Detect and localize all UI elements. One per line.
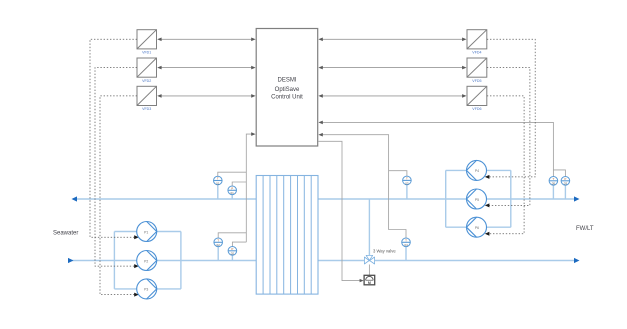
wire: top-left seawater overboard pipe [73,198,256,200]
svg-text:P: P [231,186,233,190]
svg-text:P: P [231,247,233,251]
wire: seawater sensor trunk into CU left [218,132,256,246]
sensor TT2 (SW inlet, left) [214,238,223,261]
wire: FW pipe HX to pump manifold [318,198,446,200]
svg-text:P4: P4 [475,169,479,173]
svg-text:P1: P1 [144,230,148,234]
svg-text:DESMI: DESMI [277,78,296,84]
svg-text:T: T [552,177,554,181]
VFD U2 (left top) [137,30,157,55]
VFD U4 (left bottom) [137,86,157,111]
svg-text:05: 05 [552,182,556,186]
wire: dashed drive cable left VFD2 to pump P2 [95,68,139,269]
heat exchanger HX1 (plate type) [256,176,318,295]
wire: dashed drive cable left VFD3 to pump P3 [100,96,139,297]
wire: seawater pump discharge manifold rail [156,232,181,289]
wire: control bus CU to left VFD3 (double arrow) [157,94,255,98]
svg-text:FW/LT: FW/LT [576,226,594,232]
wire: dashed drive cable right VFD4 to pump P4 [485,39,535,179]
arrow: seawater overboard (points left) [72,196,78,201]
svg-text:P2: P2 [144,259,148,263]
sensor TT5 (FW outlet, left) [549,177,558,200]
svg-text:VFD2: VFD2 [142,79,151,83]
VFD U6 (right middle) [467,58,487,83]
svg-text:P6: P6 [475,226,479,230]
wire: control bus CU to left VFD1 (double arrow) [157,38,255,42]
sensor TT4 (FW return) [402,238,411,261]
wire: FW pump manifold right rail [486,170,510,227]
svg-text:VFD3: VFD3 [142,107,151,111]
wire: CU output to 3-way valve actuator [318,141,364,282]
svg-text:P5: P5 [475,198,479,202]
svg-text:03: 03 [564,182,568,186]
arrow: FW supply outlet (points right) [574,196,580,201]
pump P3 (seawater bottom) [137,279,157,299]
wire: FW return line along bottom [318,260,577,262]
svg-text:01: 01 [231,191,235,195]
sensor TT3 (FW from HX) [403,176,412,199]
pump P2 (seawater middle) [137,251,157,271]
svg-text:T: T [405,238,407,242]
VFD U5 (right top) [467,30,487,55]
svg-text:M: M [368,281,371,285]
wire: bottom-left seawater suction pipe [69,260,114,262]
actuator M1: valve actuator [364,275,375,285]
arrow: FW return outlet (points right) [574,258,580,263]
sensor PT3 (FW outlet, right) [561,177,570,200]
svg-text:Control Unit: Control Unit [271,95,303,101]
VFD U3 (left middle) [137,58,157,83]
arrow: seawater inlet (points right) [68,258,74,263]
svg-text:04: 04 [404,243,408,247]
svg-text:VFD1: VFD1 [142,51,151,55]
wire: FW outlet sensor trunk into CU right [318,121,565,177]
svg-text:P3: P3 [144,288,148,292]
pump P6 (FW bottom) [467,217,487,237]
wire: valve to actuator stem [368,265,370,276]
svg-text:Seawater: Seawater [53,231,78,237]
pump P5 (FW middle) [467,189,487,209]
svg-text:3 Way valve: 3 Way valve [373,249,396,254]
wire: 3-way valve bypass branch [368,199,370,256]
sensor TT1 (SW outlet, left) [214,176,223,199]
svg-text:02: 02 [231,252,235,256]
wire: control bus CU to right VFD4 (double arrow) [318,38,466,42]
valve V1: 3-way valve [364,249,396,265]
wire: seawater main to heat exchanger [156,260,256,262]
svg-text:VFD4: VFD4 [472,51,481,55]
svg-text:P: P [564,177,566,181]
wire: seawater pump suction manifold rail [114,232,137,289]
wire: dashed drive cable right VFD5 to pump P5 [485,68,530,208]
wire: FW sensor trunk into CU right (mid sensors) [318,133,407,238]
wire: FW supply line to consumers [511,198,577,200]
svg-text:01: 01 [216,181,220,185]
svg-text:T: T [217,238,219,242]
VFD U7 (right bottom) [467,86,487,111]
svg-text:T: T [217,177,219,181]
sensor PT1 (SW outlet, right) [228,186,237,199]
svg-text:02: 02 [217,243,221,247]
wire: dashed drive cable right VFD6 to pump P6 [485,96,524,236]
svg-text:T: T [406,177,408,181]
wire: dashed drive cable left VFD1 to pump P1 [90,39,139,239]
pump P1 (seawater top) [137,222,157,242]
wire: control bus CU to right VFD6 (double arrow) [318,94,466,98]
svg-text:VFD6: VFD6 [472,107,481,111]
wire: FW pump manifold left rail [446,170,467,227]
sensor PT2 (SW inlet, right) [228,247,237,261]
control unit U1: DESMI OptiSave [256,29,318,147]
pump P4 (FW top) [467,160,487,180]
wire: control bus CU to left VFD2 (double arrow) [157,66,255,70]
svg-text:VFD5: VFD5 [472,79,481,83]
svg-text:03: 03 [405,181,409,185]
svg-text:OptiSave: OptiSave [275,87,300,93]
wire: control bus CU to right VFD5 (double arrow) [318,66,466,70]
